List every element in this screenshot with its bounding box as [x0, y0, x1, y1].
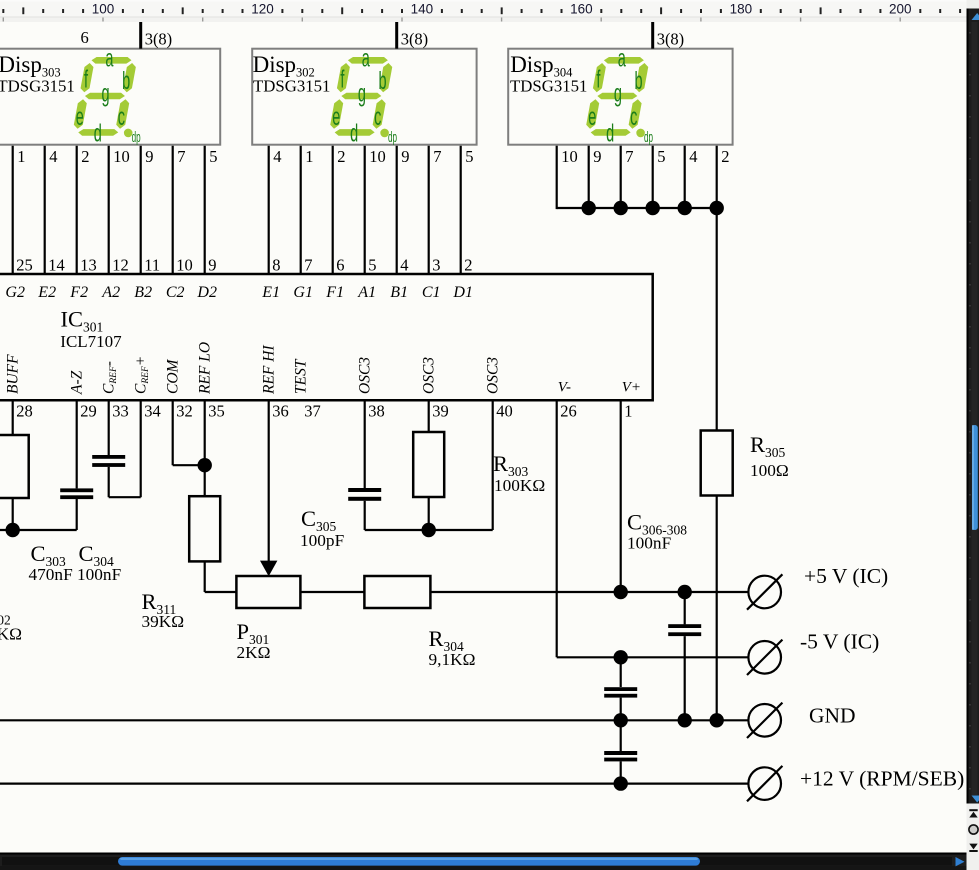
pin name E2 — [37, 284, 56, 301]
svg-text:B1: B1 — [390, 284, 408, 301]
wire R305 to GND — [716, 496, 718, 721]
svg-text:7: 7 — [433, 147, 441, 166]
pin name C2 — [166, 284, 185, 301]
bus wire into Disp302 — [397, 22, 429, 49]
pin name REF HI (rotated) — [261, 345, 278, 395]
svg-text:9: 9 — [593, 147, 601, 166]
svg-text:2: 2 — [337, 147, 345, 166]
svg-text:OSC3: OSC3 — [485, 357, 502, 394]
svg-text:5: 5 — [657, 147, 665, 166]
pin name COM (rotated) — [165, 358, 182, 394]
svg-text:A2: A2 — [101, 284, 120, 301]
pin number 34 — [144, 402, 161, 421]
svg-text:36: 36 — [272, 402, 289, 421]
svg-text:29: 29 — [80, 402, 97, 421]
svg-text:32: 32 — [176, 402, 193, 421]
pin name TEST (rotated) — [293, 358, 310, 394]
svg-text:37: 37 — [304, 402, 321, 421]
capacitor C307 — [604, 657, 637, 720]
svg-text:g: g — [614, 81, 622, 108]
pin name F2 — [69, 284, 88, 301]
pin number 26 — [560, 402, 577, 421]
svg-text:REF HI: REF HI — [261, 345, 278, 395]
display Disp304 (TDSG3151 7-segment) — [508, 46, 732, 148]
svg-text:2: 2 — [464, 256, 472, 275]
svg-text:REF LO: REF LO — [197, 342, 214, 395]
wire Disp303 pin 1 to IC301 pin 25 — [13, 146, 33, 275]
resistor R311 — [189, 496, 220, 561]
svg-text:V-: V- — [558, 380, 571, 396]
wire -5V rail — [557, 656, 749, 658]
svg-text:A1: A1 — [357, 284, 376, 301]
svg-text:b: b — [122, 68, 130, 95]
wire P301 to R304 — [300, 591, 364, 593]
wire Disp302 pin 4 to IC301 pin 8 — [269, 146, 282, 275]
capacitor C305 — [348, 400, 381, 530]
svg-text:dp: dp — [132, 130, 141, 146]
wire +5V rail — [430, 591, 748, 593]
pin name B1 — [390, 284, 408, 301]
terminal -5 V (IC) — [747, 630, 879, 676]
svg-text:9,1KΩ: 9,1KΩ — [429, 650, 476, 669]
svg-text:1: 1 — [17, 147, 25, 166]
R302 value label (clipped) — [0, 600, 22, 644]
pin number 1 — [624, 402, 632, 421]
svg-text:12: 12 — [112, 256, 129, 275]
svg-text:100pF: 100pF — [300, 531, 344, 550]
svg-text:f: f — [596, 67, 600, 94]
svg-text:140: 140 — [411, 2, 434, 17]
terminal +12 V (RPM/SEB) — [747, 766, 964, 801]
junction — [614, 201, 628, 215]
P301 label — [237, 619, 271, 662]
display Disp302 (TDSG3151 7-segment) — [252, 46, 476, 148]
svg-text:g: g — [358, 81, 366, 108]
svg-text:34: 34 — [144, 402, 161, 421]
svg-text:TDSG3151: TDSG3151 — [510, 76, 587, 95]
svg-text:4: 4 — [400, 256, 408, 275]
svg-text:COM: COM — [165, 358, 182, 394]
pin name OSC3 (rotated) — [357, 357, 374, 394]
svg-text:13: 13 — [80, 256, 97, 275]
wire Disp304 pin 4 — [685, 146, 698, 208]
svg-text:d: d — [606, 121, 614, 148]
svg-text:A-Z: A-Z — [69, 370, 86, 395]
pin number 37 — [304, 402, 321, 421]
wire Disp304 pin 5 — [653, 146, 666, 208]
display Disp303 (TDSG3151 7-segment) — [0, 46, 220, 148]
svg-text:TDSG3151: TDSG3151 — [0, 76, 75, 95]
junction — [614, 585, 628, 599]
wire Disp304 pin 2 — [717, 146, 730, 208]
svg-text:33: 33 — [112, 402, 129, 421]
op-amp/IC U1 = IC301 ICL7107 outline — [0, 274, 653, 400]
junction — [422, 523, 436, 537]
svg-text:7: 7 — [177, 147, 185, 166]
pin name OSC3 (rotated) — [485, 357, 502, 394]
junction — [614, 650, 628, 664]
svg-text:a: a — [618, 46, 627, 73]
svg-text:4: 4 — [689, 147, 697, 166]
pin number 39 — [432, 402, 449, 421]
wire Disp303 pin 10 to IC301 pin 12 — [109, 146, 130, 275]
pin name B2 — [134, 284, 152, 301]
junction — [582, 201, 596, 215]
R303 label — [493, 451, 545, 495]
pin name G2 — [5, 284, 25, 301]
wire Disp304 common bus — [557, 207, 717, 209]
svg-text:2: 2 — [721, 147, 729, 166]
pin name E1 — [261, 284, 280, 301]
wire Disp302 pin 5 to IC301 pin 2 — [461, 146, 474, 275]
svg-text:2KΩ: 2KΩ — [237, 643, 271, 662]
wire Disp303 pin 2 to IC301 pin 13 — [77, 146, 97, 275]
pin name CREF- (rotated) — [101, 361, 120, 394]
junction — [710, 713, 724, 727]
svg-text:3: 3 — [432, 256, 440, 275]
pin name A2 — [101, 284, 120, 301]
svg-text:c: c — [630, 104, 637, 131]
junction — [678, 713, 692, 727]
svg-text:40: 40 — [496, 402, 513, 421]
svg-text:a: a — [362, 46, 371, 73]
svg-text:E1: E1 — [261, 284, 280, 301]
C304 label — [77, 541, 121, 584]
scrollbar lower strip icons — [967, 804, 979, 870]
wire Disp302 pin 1 to IC301 pin 7 — [301, 146, 314, 275]
svg-text:6: 6 — [336, 256, 344, 275]
svg-text:14: 14 — [48, 256, 64, 275]
svg-text:e: e — [332, 104, 340, 131]
pin number 35 — [208, 402, 225, 421]
junction — [198, 458, 212, 472]
svg-text:F1: F1 — [325, 284, 344, 301]
capacitor C308 — [604, 720, 637, 783]
svg-text:g: g — [102, 81, 110, 108]
svg-text:5: 5 — [209, 147, 217, 166]
svg-text:28: 28 — [16, 402, 33, 421]
junction — [710, 201, 724, 215]
svg-text:C2: C2 — [166, 284, 185, 301]
pin name F1 — [325, 284, 344, 301]
svg-text:5: 5 — [368, 256, 376, 275]
svg-text:470nF: 470nF — [29, 565, 73, 584]
svg-text:OSC3: OSC3 — [357, 357, 374, 394]
svg-text:3,3KΩ: 3,3KΩ — [0, 625, 22, 644]
svg-text:100: 100 — [92, 2, 115, 17]
resistor R305 — [701, 431, 733, 496]
svg-text:TEST: TEST — [293, 358, 310, 394]
svg-text:OSC3: OSC3 — [421, 357, 438, 394]
wire IC pin 32 (COM) to REF LO node — [173, 400, 205, 465]
svg-text:10: 10 — [113, 147, 130, 166]
wire Disp302 pin 7 to IC301 pin 3 — [429, 146, 442, 275]
pin number 36 — [272, 402, 289, 421]
wire IC pin 28 to R302 — [12, 400, 14, 435]
svg-text:100nF: 100nF — [627, 534, 671, 553]
potentiometer P301 — [236, 576, 300, 608]
svg-text:GND: GND — [809, 704, 856, 728]
C306-308 label — [627, 510, 687, 553]
wire Disp302 pin 10 to IC301 pin 5 — [365, 146, 386, 275]
pin number 40 — [496, 402, 513, 421]
svg-text:G2: G2 — [5, 284, 25, 301]
svg-text:7: 7 — [625, 147, 633, 166]
wire V+ (pin 1) down — [620, 400, 622, 592]
C305 label — [300, 506, 344, 550]
resistor R302 (partially off-canvas) — [0, 435, 29, 498]
wire GND rail — [0, 719, 748, 721]
P301 wiper wire from IC pin 36 — [260, 400, 277, 576]
svg-text:2: 2 — [81, 147, 89, 166]
svg-text:G1: G1 — [293, 284, 313, 301]
resistor R303 — [413, 432, 444, 530]
bus width label 6 — [81, 28, 89, 47]
pin number 28 — [16, 402, 33, 421]
wire +12V rail — [0, 782, 748, 784]
capacitor C306 — [668, 592, 701, 720]
svg-text:3(8): 3(8) — [401, 30, 429, 49]
svg-text:V+: V+ — [622, 380, 641, 396]
pin name BUFF (rotated) — [5, 354, 22, 394]
svg-text:1: 1 — [305, 147, 313, 166]
wire Disp303 pin 4 to IC301 pin 14 — [45, 146, 65, 275]
svg-text:D1: D1 — [452, 284, 473, 301]
junction — [678, 201, 692, 215]
svg-text:-5 V (IC): -5 V (IC) — [800, 630, 879, 654]
wire Disp303 pin 9 to IC301 pin 11 — [141, 146, 160, 275]
wire IC pin 39 to R303 — [428, 400, 430, 432]
svg-text:39KΩ: 39KΩ — [142, 612, 185, 631]
bus wire into Disp303 — [141, 22, 173, 49]
C303 label — [29, 541, 73, 584]
svg-text:+12 V (RPM/SEB): +12 V (RPM/SEB) — [800, 767, 964, 791]
wire Disp303 pin 5 to IC301 pin 9 — [205, 146, 218, 275]
wire Disp302 pin 9 to IC301 pin 4 — [397, 146, 410, 275]
R305 label — [750, 432, 789, 480]
pin name OSC3 (rotated) — [421, 357, 438, 394]
junction — [646, 201, 660, 215]
pin number 33 — [112, 402, 129, 421]
svg-text:9: 9 — [401, 147, 409, 166]
svg-text:38: 38 — [368, 402, 385, 421]
wire Disp304 pin 9 — [589, 146, 602, 208]
svg-text:c: c — [374, 104, 381, 131]
svg-text:f: f — [84, 67, 88, 94]
pin name D2 — [196, 284, 217, 301]
svg-text:25: 25 — [16, 256, 33, 275]
wire IC pin 35 to R311 — [204, 400, 206, 496]
svg-text:b: b — [379, 68, 387, 95]
svg-text:f: f — [340, 67, 344, 94]
svg-text:1: 1 — [624, 402, 632, 421]
pin name A-Z (rotated) — [69, 370, 86, 395]
svg-text:100KΩ: 100KΩ — [494, 476, 545, 495]
svg-text:10: 10 — [561, 147, 578, 166]
wire Disp304 pin 10 — [557, 146, 578, 209]
svg-text:F2: F2 — [69, 284, 88, 301]
horizontal scrollbar (bottom) — [0, 853, 967, 870]
junction — [678, 585, 692, 599]
svg-text:d: d — [94, 121, 102, 148]
ruler — [0, 0, 967, 22]
svg-text:100Ω: 100Ω — [750, 461, 789, 480]
pin name CREF+ (rotated) — [133, 356, 152, 394]
svg-text:160: 160 — [570, 2, 593, 17]
svg-text:TDSG3151: TDSG3151 — [253, 76, 330, 95]
svg-text:10: 10 — [176, 256, 193, 275]
svg-text:BUFF: BUFF — [5, 354, 22, 394]
svg-text:e: e — [76, 104, 84, 131]
terminal GND — [747, 703, 856, 738]
svg-text:d: d — [350, 121, 358, 148]
svg-text:e: e — [588, 104, 596, 131]
svg-text:B2: B2 — [134, 284, 152, 301]
svg-text:dp: dp — [644, 130, 653, 146]
svg-text:10: 10 — [369, 147, 386, 166]
svg-text:26: 26 — [560, 402, 577, 421]
svg-text:D2: D2 — [196, 284, 217, 301]
junction — [6, 523, 20, 537]
pin name REF LO (rotated) — [197, 342, 214, 395]
wire Disp304 pin 7 — [621, 146, 634, 208]
vertical scrollbar (right) — [967, 0, 979, 804]
pin number 29 — [80, 402, 97, 421]
wire Disp304 bus to R305 — [716, 208, 718, 431]
pin number 32 — [176, 402, 193, 421]
wire R302 to integrator node — [12, 498, 14, 530]
svg-text:200: 200 — [889, 2, 912, 17]
svg-text:9: 9 — [208, 256, 216, 275]
svg-text:E2: E2 — [37, 284, 56, 301]
svg-text:5: 5 — [465, 147, 473, 166]
svg-text:180: 180 — [730, 2, 753, 17]
svg-text:120: 120 — [251, 2, 274, 17]
pin name C1 — [422, 284, 441, 301]
pin number 38 — [368, 402, 385, 421]
svg-text:+5 V (IC): +5 V (IC) — [804, 564, 888, 588]
junction — [614, 713, 628, 727]
wire R311 to P301 — [205, 561, 237, 592]
wire Disp303 pin 7 to IC301 pin 10 — [173, 146, 193, 275]
R311 label — [142, 589, 185, 631]
R304 label — [429, 626, 476, 669]
svg-text:9: 9 — [145, 147, 153, 166]
capacitor C303 — [60, 400, 93, 499]
bus wire into Disp304 — [653, 22, 685, 49]
wire oscillator node — [365, 400, 493, 530]
wire integrator node — [0, 499, 77, 530]
pin name D1 — [452, 284, 473, 301]
svg-text:100nF: 100nF — [77, 565, 121, 584]
svg-text:a: a — [105, 46, 114, 73]
svg-text:4: 4 — [49, 147, 57, 166]
svg-text:39: 39 — [432, 402, 449, 421]
wire V- (pin 26) down — [556, 400, 558, 657]
svg-text:C1: C1 — [422, 284, 441, 301]
svg-text:6: 6 — [81, 28, 89, 47]
resistor R304 — [364, 576, 430, 608]
wire Disp302 pin 2 to IC301 pin 6 — [333, 146, 346, 275]
junction — [614, 776, 628, 790]
svg-text:35: 35 — [208, 402, 225, 421]
terminal +5 V (IC) — [747, 564, 888, 610]
pin name A1 — [357, 284, 376, 301]
svg-text:4: 4 — [273, 147, 281, 166]
svg-text:3(8): 3(8) — [145, 30, 173, 49]
svg-text:8: 8 — [272, 256, 280, 275]
svg-text:dp: dp — [388, 130, 397, 146]
pin name V- — [558, 380, 571, 396]
svg-text:3(8): 3(8) — [657, 30, 685, 49]
svg-text:11: 11 — [144, 256, 160, 275]
pin name V+ — [622, 380, 641, 396]
svg-text:7: 7 — [304, 256, 312, 275]
svg-text:c: c — [118, 104, 125, 131]
IC301 reference label — [60, 307, 122, 352]
capacitor C304 — [92, 400, 141, 497]
pin name G1 — [293, 284, 313, 301]
svg-text:ICL7107: ICL7107 — [60, 332, 122, 351]
svg-text:b: b — [635, 68, 643, 95]
